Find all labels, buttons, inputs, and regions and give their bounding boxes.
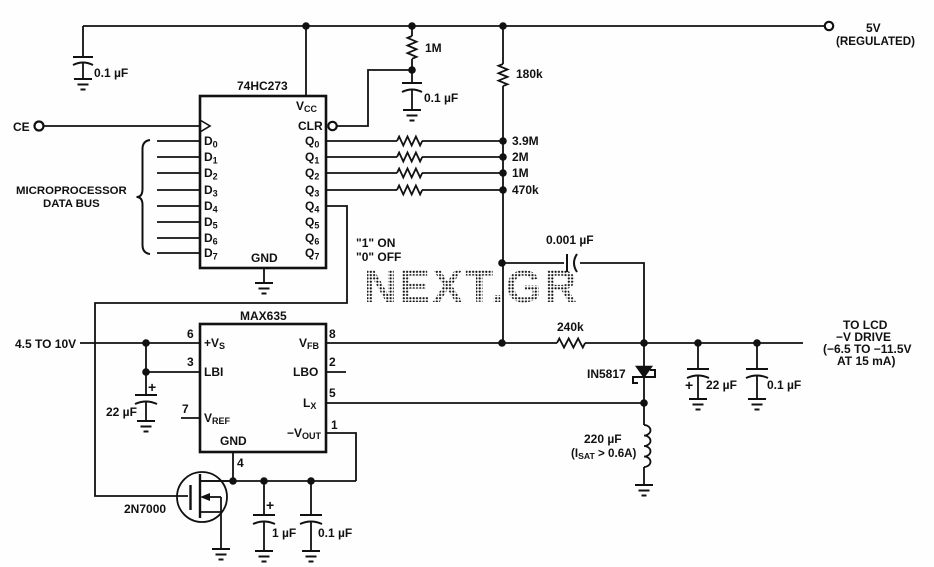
svg-text:6: 6 (187, 327, 194, 341)
svg-text:220 µF: 220 µF (584, 432, 622, 446)
svg-text:IN5817: IN5817 (587, 367, 626, 381)
svg-text:NEXT.GR: NEXT.GR (364, 261, 579, 312)
svg-text:+: + (148, 379, 156, 395)
svg-text:7: 7 (182, 402, 189, 416)
svg-text:8: 8 (329, 327, 336, 341)
svg-text:GND: GND (251, 251, 278, 265)
svg-text:3: 3 (187, 355, 194, 369)
svg-text:LBI: LBI (204, 365, 223, 379)
svg-text:CE: CE (13, 120, 30, 134)
svg-text:2M: 2M (512, 150, 529, 164)
svg-text:DATA BUS: DATA BUS (43, 198, 100, 210)
svg-text:MICROPROCESSOR: MICROPROCESSOR (16, 185, 127, 197)
svg-text:2N7000: 2N7000 (124, 502, 166, 516)
svg-text:4: 4 (237, 456, 244, 470)
svg-text:+: + (685, 377, 693, 393)
svg-text:0.1 µF: 0.1 µF (424, 91, 458, 105)
svg-text:22 µF: 22 µF (706, 378, 737, 392)
svg-text:1M: 1M (425, 41, 442, 55)
svg-text:1 µF: 1 µF (272, 526, 296, 540)
svg-text:AT 15 mA): AT 15 mA) (837, 354, 895, 368)
svg-text:2: 2 (329, 355, 336, 369)
svg-text:22 µF: 22 µF (106, 405, 137, 419)
svg-text:0.1 µF: 0.1 µF (94, 66, 128, 80)
svg-text:74HC273: 74HC273 (237, 79, 288, 93)
svg-text:1: 1 (331, 418, 338, 432)
svg-text:5V: 5V (866, 21, 881, 35)
svg-text:CLR: CLR (298, 119, 323, 133)
svg-text:470k: 470k (512, 183, 539, 197)
svg-text:"0" OFF: "0" OFF (356, 250, 401, 264)
svg-text:0.1 µF: 0.1 µF (318, 526, 352, 540)
svg-text:"1" ON: "1" ON (356, 236, 395, 250)
svg-text:LBO: LBO (293, 365, 318, 379)
svg-text:0.1 µF: 0.1 µF (767, 378, 801, 392)
svg-text:5: 5 (329, 386, 336, 400)
svg-text:MAX635: MAX635 (240, 309, 287, 323)
svg-text:3.9M: 3.9M (512, 134, 539, 148)
svg-text:180k: 180k (516, 67, 543, 81)
svg-text:1M: 1M (512, 166, 529, 180)
svg-text:4.5 TO 10V: 4.5 TO 10V (15, 337, 76, 351)
svg-text:240k: 240k (557, 320, 584, 334)
svg-text:GND: GND (220, 434, 247, 448)
svg-text:(REGULATED): (REGULATED) (836, 35, 915, 48)
svg-text:0.001 µF: 0.001 µF (546, 233, 594, 247)
svg-text:+: + (266, 497, 274, 513)
